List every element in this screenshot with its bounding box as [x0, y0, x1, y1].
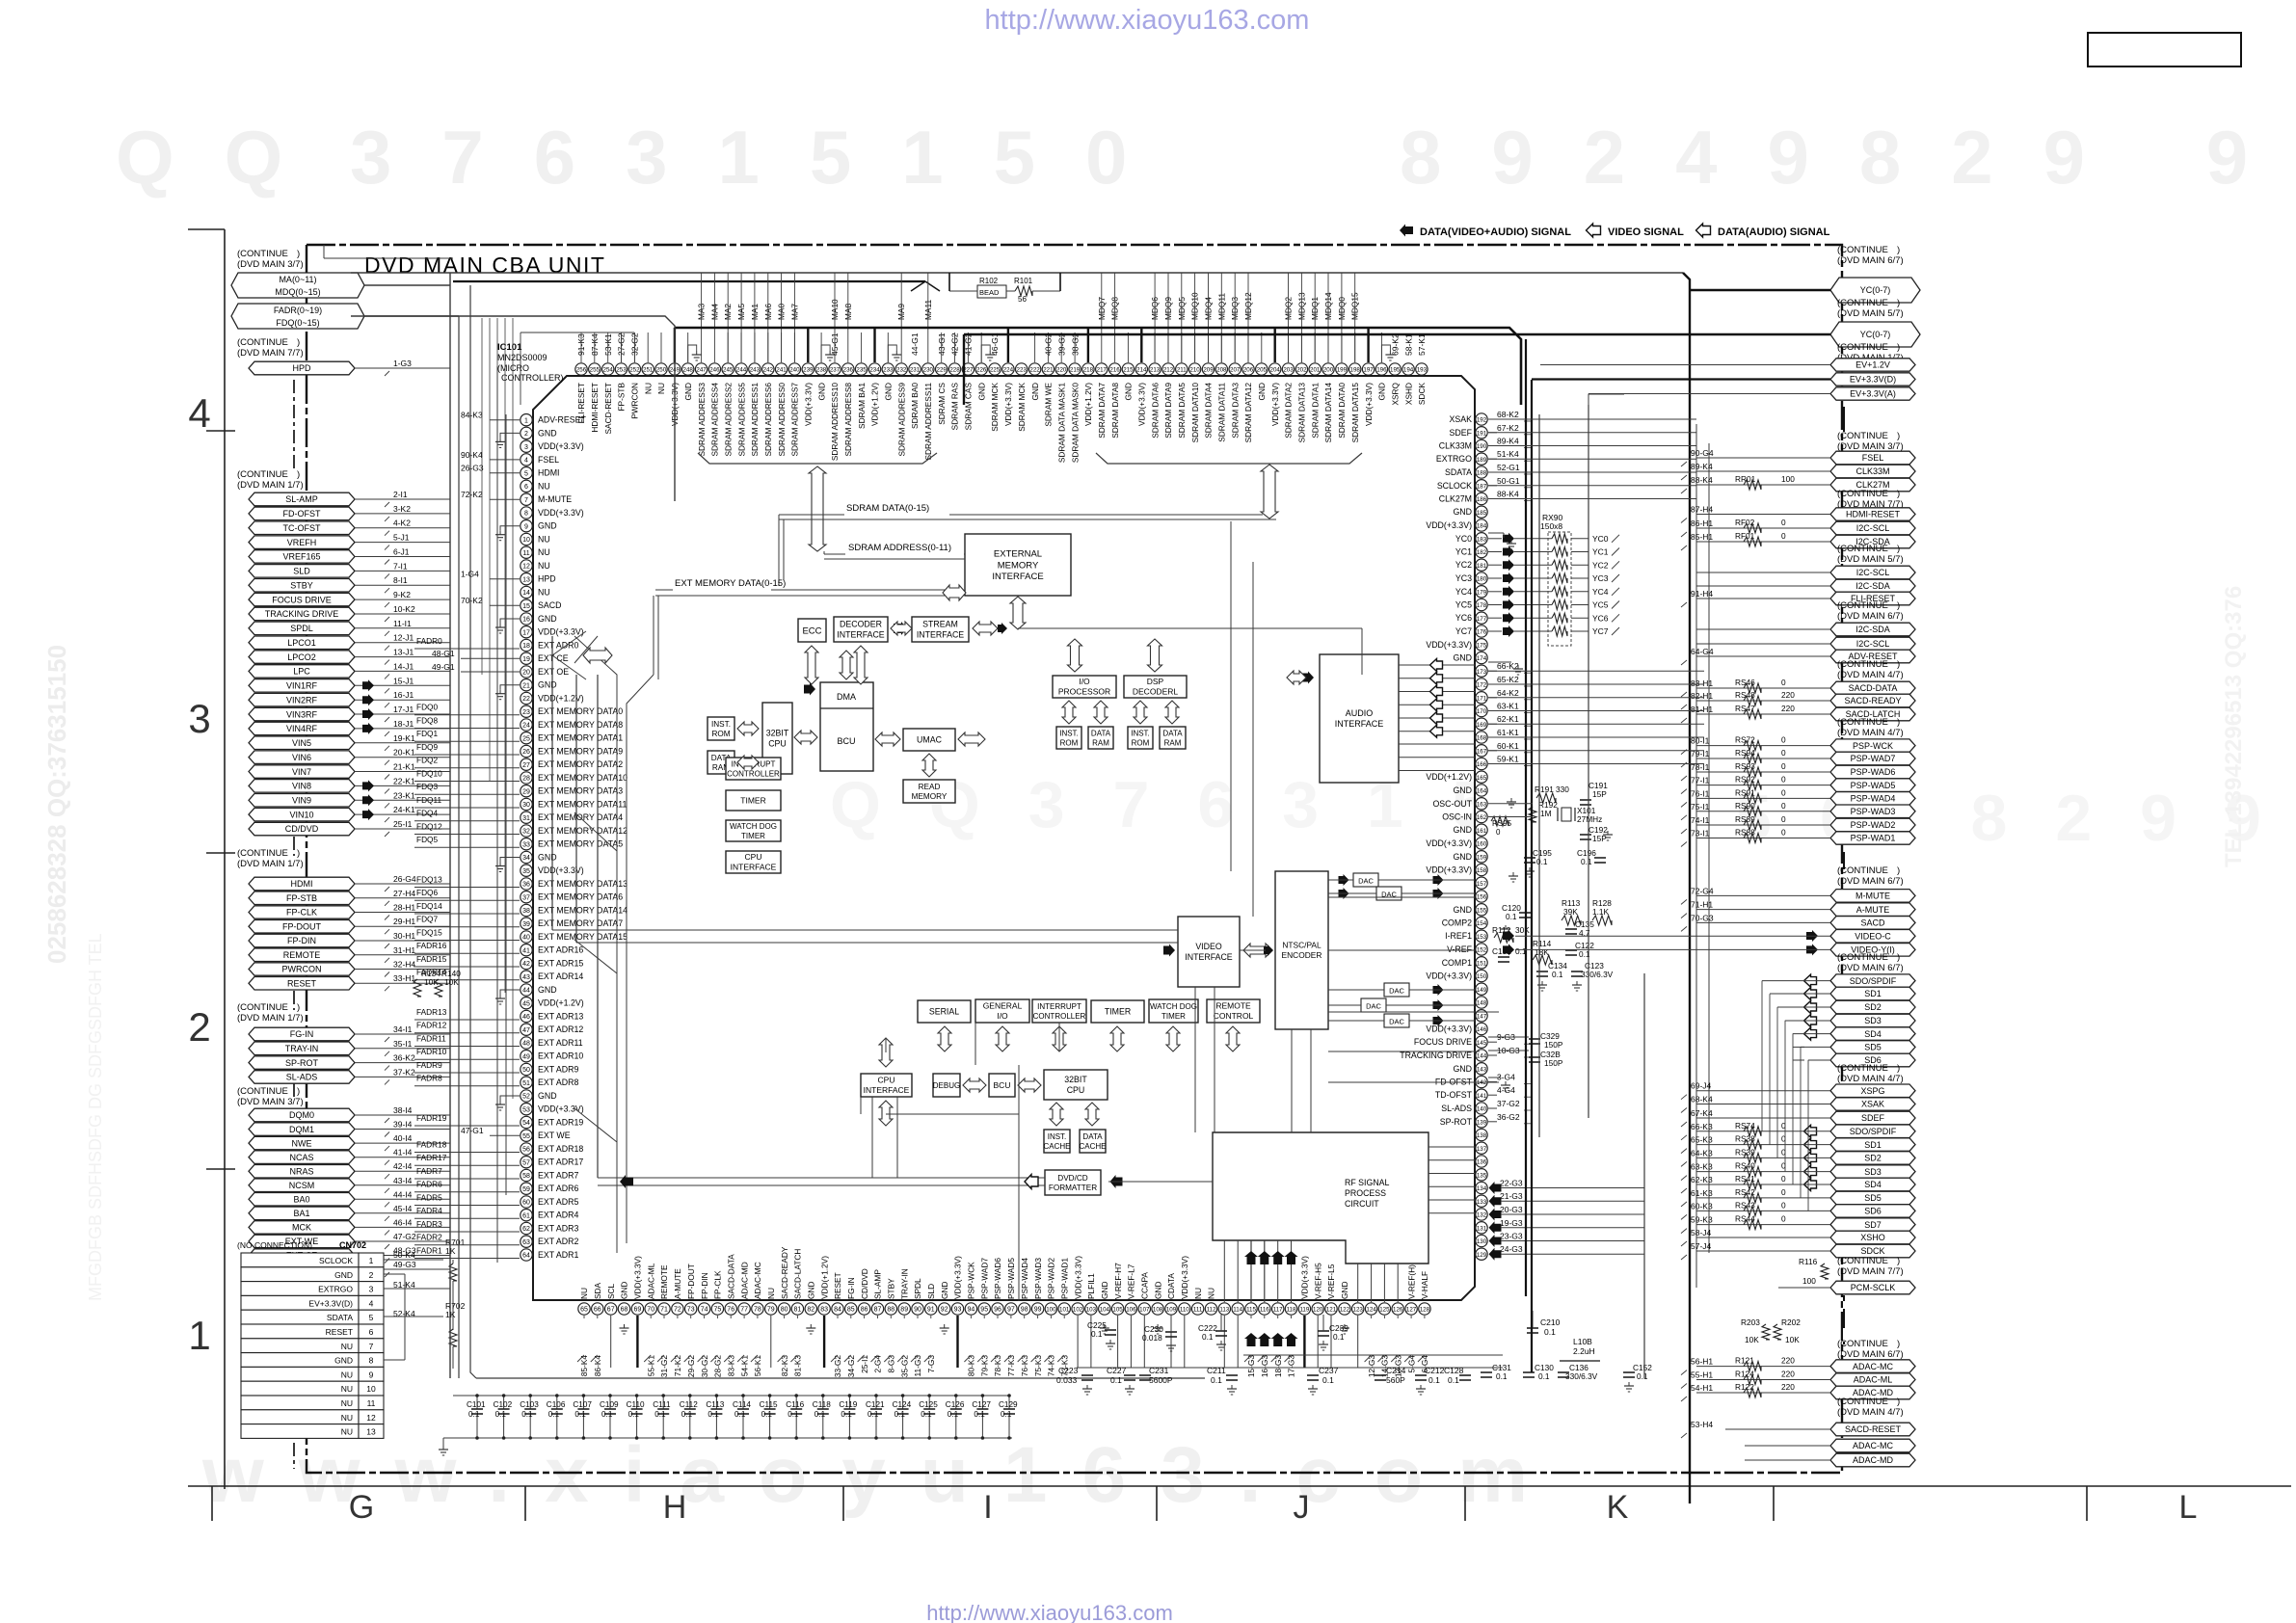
block DSP DECODERL [1124, 676, 1187, 698]
svg-text:INST.: INST. [711, 720, 731, 729]
svg-text:225: 225 [990, 367, 1001, 374]
svg-text:0.1: 0.1 [921, 1410, 932, 1419]
svg-text:128: 128 [1420, 1307, 1430, 1314]
svg-text:YC(0-7): YC(0-7) [1860, 330, 1891, 339]
arrow bcu-umac [875, 732, 900, 746]
svg-text:19: 19 [522, 656, 530, 663]
svg-text:158: 158 [1477, 867, 1487, 874]
svg-text:238: 238 [816, 367, 827, 374]
svg-text:207: 207 [1230, 367, 1241, 374]
arrow ntsc left [1243, 944, 1272, 957]
cap bank ground [442, 1438, 444, 1446]
svg-text:66: 66 [594, 1307, 601, 1314]
connector label SD2 [1830, 1000, 1915, 1014]
svg-text:EXT ADR2: EXT ADR2 [538, 1237, 578, 1246]
IC101 pin 97 PSP-WAD5 [1005, 1303, 1017, 1315]
svg-text:ADAC-MD: ADAC-MD [1853, 1455, 1893, 1465]
svg-text:64-G4: 64-G4 [1691, 647, 1714, 656]
sd arrow low 1 [1804, 1138, 1817, 1151]
svg-text:0.1: 0.1 [548, 1410, 560, 1419]
svg-text:DAC: DAC [1358, 877, 1374, 886]
IC101 pin 108 GND [1152, 1303, 1163, 1315]
IC101 pin 163 OSC-OUT [1476, 798, 1487, 810]
svg-text:100: 100 [1046, 1307, 1056, 1314]
block DATA RAM 3 [1160, 727, 1186, 749]
svg-text:SDRAM CS: SDRAM CS [937, 383, 947, 425]
svg-text:VDD(+3.3V): VDD(+3.3V) [1270, 383, 1280, 426]
connector label PSP-WAD2 [1830, 818, 1915, 832]
net label YC2 right [1571, 564, 1589, 566]
svg-text:RESET: RESET [287, 979, 317, 989]
svg-text:245: 245 [723, 367, 734, 374]
IC101 pin 206 SDRAM DATA12 [1242, 363, 1254, 375]
net label YC3 right [1571, 577, 1589, 579]
svg-text:60: 60 [522, 1200, 530, 1207]
block I/O PROCESSOR [1053, 676, 1116, 698]
connector label FLI-RESET [1830, 592, 1915, 605]
svg-text:0.1: 0.1 [1091, 1329, 1103, 1339]
left bus wire B [458, 316, 460, 1378]
left label VIN10 [249, 808, 355, 821]
connector label A-MUTE [1830, 903, 1915, 917]
svg-text:86: 86 [861, 1307, 868, 1314]
svg-text:188: 188 [1477, 470, 1487, 477]
IC101 pin 205 GND [1256, 363, 1268, 375]
svg-text:0.1: 0.1 [601, 1410, 613, 1419]
connector label VIDEO-C [1830, 930, 1915, 944]
svg-text:220: 220 [1781, 690, 1795, 700]
svg-text:EXT ADR16: EXT ADR16 [538, 945, 583, 955]
svg-text:SDRAM DATA0: SDRAM DATA0 [1337, 383, 1347, 439]
svg-text:35-I1: 35-I1 [393, 1039, 413, 1049]
IC101 pin 32 EXT MEMORY DATA12 [521, 825, 532, 837]
svg-text:C127: C127 [972, 1400, 991, 1409]
svg-text:(DVD MAIN 1/7): (DVD MAIN 1/7) [237, 480, 304, 491]
svg-text:INTERRUPT: INTERRUPT [1037, 1002, 1081, 1011]
block DATA CACHE [1080, 1130, 1106, 1153]
IC101 pin 85 FG-IN [845, 1303, 857, 1315]
video-c arrows [1503, 930, 1514, 942]
bottom collector bus B [1077, 1367, 1503, 1369]
svg-text:209: 209 [1203, 367, 1214, 374]
svg-text:89249829 9: 89249829 9 [1400, 115, 2296, 200]
svg-text:7-G3: 7-G3 [926, 1355, 936, 1373]
svg-text:V-REF(H): V-REF(H) [1406, 1264, 1416, 1299]
svg-text:VIN3RF: VIN3RF [286, 709, 318, 719]
net label YC4 right [1571, 591, 1589, 593]
svg-text:208: 208 [1216, 367, 1227, 374]
IC101 pin 75 FP-CLK [711, 1303, 723, 1315]
svg-text:22: 22 [522, 696, 530, 703]
wire videoif input [552, 929, 1178, 931]
IC101 pin 167 [1476, 745, 1487, 757]
svg-text:39: 39 [522, 921, 530, 928]
IC101 pin 129 [1476, 1248, 1487, 1260]
svg-text:DVD MAIN CBA UNIT: DVD MAIN CBA UNIT [364, 253, 605, 278]
IC101 pin 130 [1476, 1235, 1487, 1246]
IC101 pin 43 EXT ADR14 [521, 971, 532, 982]
svg-text:237: 237 [830, 367, 841, 374]
svg-text:FADR16: FADR16 [416, 941, 447, 950]
svg-text:SDRAM ADDRESS0: SDRAM ADDRESS0 [777, 383, 787, 457]
svg-text:37-G2: 37-G2 [1497, 1099, 1520, 1108]
svg-text:GND: GND [976, 383, 986, 400]
svg-text:252: 252 [629, 367, 640, 374]
svg-text:(CONTINUE: (CONTINUE [1837, 717, 1888, 728]
svg-text:C112: C112 [680, 1400, 698, 1409]
svg-text:SD6: SD6 [1864, 1207, 1882, 1216]
svg-text:QQ: QQ [116, 115, 333, 200]
svg-text:71: 71 [660, 1307, 668, 1314]
svg-text:1M: 1M [1540, 809, 1552, 818]
svg-text:159: 159 [1477, 854, 1487, 861]
svg-text:11-I1: 11-I1 [393, 619, 412, 628]
svg-text:C126: C126 [946, 1400, 965, 1409]
svg-text:(DVD MAIN 5/7): (DVD MAIN 5/7) [1837, 308, 1904, 319]
svg-text:SDRAM ADDRESS(0-11): SDRAM ADDRESS(0-11) [848, 543, 951, 553]
svg-text:YC6: YC6 [1592, 613, 1609, 623]
connector label FSEL [1830, 451, 1915, 465]
svg-text:193: 193 [1417, 367, 1428, 374]
IC101 pin 136 [1476, 1156, 1487, 1167]
IC101 pin 244 SDRAM ADDRESS5 [735, 363, 747, 375]
svg-text:INTERFACE: INTERFACE [917, 630, 964, 640]
IC101 pin 50 EXT ADR9 [521, 1063, 532, 1075]
svg-text:EXT MEMORY DATA7: EXT MEMORY DATA7 [538, 918, 623, 928]
svg-text:M-MUTE: M-MUTE [1855, 891, 1890, 901]
svg-text:SDO/SPDIF: SDO/SPDIF [1850, 976, 1897, 986]
svg-text:SDRAM DATA14: SDRAM DATA14 [1323, 383, 1333, 443]
wire ev33a [1589, 394, 1624, 405]
svg-text:181: 181 [1477, 563, 1487, 570]
svg-text:10K: 10K [1745, 1335, 1759, 1344]
svg-text:32-H4: 32-H4 [393, 960, 415, 970]
power rail x1589 [1531, 380, 1533, 1372]
svg-text:NTSC/PAL: NTSC/PAL [1282, 941, 1322, 950]
IC101 pin 76 SACD-DATA [725, 1303, 736, 1315]
svg-text:RESET: RESET [326, 1327, 353, 1337]
svg-text:0.1: 0.1 [1202, 1332, 1214, 1342]
svg-text:8-G3: 8-G3 [887, 1355, 896, 1373]
svg-text:197: 197 [1363, 367, 1374, 374]
wire ntsc down [1291, 1029, 1293, 1132]
svg-text:CONTROLLER: CONTROLLER [1033, 1012, 1086, 1021]
svg-text:DAC: DAC [1389, 987, 1404, 996]
connector label EV+3.3V(D) [1830, 373, 1915, 386]
left label VIN7 [249, 765, 355, 779]
svg-text:80: 80 [781, 1307, 788, 1314]
svg-text:143: 143 [1477, 1066, 1487, 1073]
svg-text:88: 88 [887, 1307, 894, 1314]
svg-text:NCSM: NCSM [289, 1181, 315, 1190]
svg-text:DAC: DAC [1366, 1002, 1381, 1011]
svg-text:97: 97 [1007, 1307, 1015, 1314]
connector label CLK33M [1830, 465, 1915, 478]
svg-text:196: 196 [1376, 367, 1387, 374]
svg-text:PSP-WCK: PSP-WCK [967, 1262, 976, 1299]
connector label PSP-WAD7 [1830, 752, 1915, 765]
top left pin riser wires [580, 333, 582, 362]
IC101 pin 222 GND [1028, 363, 1040, 375]
IC101 pin 134 [1476, 1182, 1487, 1193]
svg-text:DATA(AUDIO) SIGNAL: DATA(AUDIO) SIGNAL [1718, 226, 1830, 238]
svg-text:12: 12 [522, 564, 530, 571]
svg-text:88-K4: 88-K4 [1691, 475, 1713, 485]
svg-text:91: 91 [927, 1307, 935, 1314]
svg-text:62: 62 [522, 1226, 530, 1233]
svg-text:SACD-READY: SACD-READY [780, 1246, 789, 1299]
video-y arrows [1503, 944, 1514, 955]
bus FADR/FDQ horizontal [351, 316, 675, 501]
IC101 pin 27 EXT MEMORY DATA2 [521, 758, 532, 770]
fan-in chevrons left pins [574, 636, 617, 1253]
IC101 pin 256 FLI-RESET [575, 363, 587, 375]
connector label ADAC-MC [1830, 1439, 1915, 1452]
svg-text:FADR5: FADR5 [416, 1193, 442, 1203]
svg-text:I2C-SCL: I2C-SCL [1856, 568, 1890, 577]
svg-text:GND: GND [538, 853, 557, 863]
svg-text:179: 179 [1477, 589, 1487, 596]
svg-text:118: 118 [1287, 1307, 1296, 1314]
op-amp IC101 outline [533, 376, 1475, 1300]
svg-text:241: 241 [776, 367, 787, 374]
IC101 pin 120 V-REF-H5 [1312, 1303, 1323, 1315]
svg-text:139: 139 [1477, 1119, 1487, 1126]
svg-text:YC5: YC5 [1592, 600, 1609, 610]
IC101 pin 159 GND [1476, 851, 1487, 863]
outer dash-dot border [307, 245, 1842, 1473]
capacitor C125 0.1 [928, 1396, 930, 1409]
connector label EV+3.3V(A) [1830, 387, 1915, 400]
svg-text:219: 219 [1070, 367, 1081, 374]
svg-text:58-K1: 58-K1 [1403, 333, 1413, 356]
svg-text:SDRAM ADDRESS3: SDRAM ADDRESS3 [697, 383, 707, 457]
svg-text:177: 177 [1477, 616, 1487, 623]
capacitor C124 0.1 [902, 1396, 904, 1409]
left label BA1 [249, 1207, 355, 1220]
IC101 pin 33 EXT MEMORY DATA5 [521, 838, 532, 850]
svg-text:A-MUTE: A-MUTE [1856, 905, 1890, 915]
svg-text:SD2: SD2 [1864, 1154, 1882, 1163]
svg-text:49-G1: 49-G1 [432, 662, 455, 672]
IC101 pin 13 HPD [521, 573, 532, 585]
svg-text:0.1: 0.1 [761, 1410, 773, 1419]
left continuation dash c [293, 991, 295, 1010]
svg-text:43: 43 [522, 974, 530, 981]
svg-text:VDD(+1.2V): VDD(+1.2V) [1426, 772, 1472, 782]
IC101 pin 92 GND [939, 1303, 950, 1315]
svg-text:183: 183 [1477, 536, 1487, 543]
arrow dsp up [1148, 639, 1162, 672]
svg-text:3: 3 [188, 696, 210, 741]
left label PWRCON [249, 963, 355, 975]
svg-text:0.1: 0.1 [1322, 1375, 1334, 1385]
svg-text:): ) [297, 1002, 300, 1013]
svg-text:GND: GND [1153, 1282, 1162, 1299]
svg-text:VDD(+3.3V): VDD(+3.3V) [1426, 520, 1472, 530]
svg-text:SDRAM DATA12: SDRAM DATA12 [1243, 383, 1253, 443]
left label EXT-CE [249, 1249, 355, 1262]
svg-text:DECODERL: DECODERL [1133, 687, 1179, 697]
IC101 pin 31 EXT MEMORY DATA4 [521, 811, 532, 823]
block EXTERNAL MEMORY INTERFACE [965, 534, 1071, 596]
IC101 pin 93 VDD(+3.3V) [951, 1303, 963, 1315]
sd arrow 5 [1793, 1046, 1804, 1048]
svg-text:0: 0 [1781, 1200, 1786, 1210]
svg-text:OSC-IN: OSC-IN [1442, 812, 1472, 822]
svg-text:http://www.xiaoyu163.com: http://www.xiaoyu163.com [985, 5, 1310, 36]
svg-text:5: 5 [369, 1313, 374, 1322]
svg-text:38: 38 [522, 908, 530, 915]
left label FP-DOUT [249, 920, 355, 934]
svg-text:220: 220 [1781, 1382, 1795, 1392]
svg-text:SDRAM DATA15: SDRAM DATA15 [1350, 383, 1360, 443]
arrow instrom1 [737, 722, 759, 735]
svg-text:70: 70 [647, 1307, 654, 1314]
svg-text:C111: C111 [653, 1400, 671, 1409]
svg-text:VDD(+3.3V): VDD(+3.3V) [1137, 383, 1147, 426]
svg-text:J: J [1294, 1489, 1310, 1526]
IC101 pin 185 GND [1476, 506, 1487, 518]
svg-text:79: 79 [767, 1307, 775, 1314]
svg-text:EXT MEMORY DATA14: EXT MEMORY DATA14 [538, 906, 627, 916]
svg-text:DQM0: DQM0 [289, 1110, 314, 1120]
block DMA/BCU [820, 682, 873, 771]
arrow ext bus into EMI [943, 585, 966, 600]
svg-text:AUDIO: AUDIO [1346, 708, 1374, 718]
svg-text:DATA: DATA [1091, 729, 1111, 737]
svg-text:131: 131 [1477, 1225, 1487, 1232]
svg-text:190: 190 [1477, 443, 1487, 450]
svg-text:PSP-WAD2: PSP-WAD2 [1851, 820, 1896, 830]
svg-text:ENCODER: ENCODER [1282, 950, 1322, 960]
IC101 pin 250 NU [655, 363, 667, 375]
svg-text:90: 90 [914, 1307, 921, 1314]
sd arrow low 4 [1804, 1179, 1817, 1191]
svg-text:0: 0 [1781, 678, 1786, 687]
connector label XSAK [1830, 1098, 1915, 1110]
svg-text:FADR19: FADR19 [416, 1113, 447, 1123]
svg-text:21-G3: 21-G3 [1500, 1191, 1523, 1201]
svg-text:149: 149 [1477, 987, 1487, 994]
svg-text:41: 41 [522, 947, 530, 954]
connector label SD5 [1830, 1041, 1915, 1054]
svg-text:57-K1: 57-K1 [1417, 333, 1427, 356]
svg-text:(CONTINUE: (CONTINUE [1837, 298, 1888, 308]
svg-text:EXTRGO: EXTRGO [318, 1285, 353, 1294]
IC101 pin 125 [1378, 1303, 1390, 1315]
svg-text:REMOTE: REMOTE [283, 950, 321, 960]
svg-text:18-J1: 18-J1 [393, 719, 414, 729]
svg-text:54: 54 [522, 1120, 530, 1127]
svg-text:DATA: DATA [1082, 1132, 1103, 1141]
IC101 pin 57 EXT ADR17 [521, 1157, 532, 1168]
IC101 pin 114 [1232, 1303, 1243, 1315]
svg-text:SDEF: SDEF [1450, 428, 1473, 438]
svg-text:PSP-WAD3: PSP-WAD3 [1033, 1258, 1043, 1299]
IC101 pin 16 GND [521, 613, 532, 625]
connector label YC(0-7) [1830, 322, 1920, 347]
svg-text:MDQ(0~15): MDQ(0~15) [275, 287, 320, 297]
svg-text:XSRQ: XSRQ [1390, 382, 1400, 405]
svg-text:DMA: DMA [837, 692, 856, 702]
RF block right wires [1428, 1146, 1475, 1148]
svg-text:EXT ADR14: EXT ADR14 [538, 971, 583, 981]
svg-text:81: 81 [794, 1307, 802, 1314]
svg-text:FOCUS DRIVE: FOCUS DRIVE [1414, 1037, 1472, 1047]
svg-text:30-H1: 30-H1 [393, 931, 415, 941]
svg-text:V-REF: V-REF [1447, 945, 1473, 954]
IC101 pin 116 [1259, 1303, 1270, 1315]
left continuation dash b [293, 837, 295, 856]
left label LPCO2 [249, 651, 355, 664]
block BCU 2 [989, 1074, 1015, 1097]
svg-text:DAC: DAC [1389, 1018, 1404, 1026]
IC101 pin 218 VDD(+1.2V) [1082, 363, 1094, 375]
svg-text:FADR17: FADR17 [416, 1153, 447, 1162]
svg-text:2-G4: 2-G4 [873, 1355, 883, 1373]
svg-text:26-G4: 26-G4 [393, 874, 416, 884]
svg-text:VDD(+3.3V): VDD(+3.3V) [1180, 1256, 1189, 1299]
IC101 pin 66 SDA [592, 1303, 603, 1315]
IC101 pin 70 ADAC-ML [645, 1303, 656, 1315]
IC101 pin 173 [1476, 665, 1487, 677]
svg-text:176: 176 [1477, 629, 1487, 636]
svg-text:84: 84 [834, 1307, 841, 1314]
capacitor C110 0.1 [636, 1396, 638, 1409]
svg-text:SDRAM DATA8: SDRAM DATA8 [1110, 383, 1120, 439]
svg-text:FP-DOUT: FP-DOUT [282, 922, 321, 932]
IC101 pin 175 VDD(+3.3V) [1476, 639, 1487, 651]
IC101 pin 79 NU [765, 1303, 777, 1315]
bottom ruler ticks [211, 1486, 213, 1521]
svg-text:31-H1: 31-H1 [393, 945, 415, 955]
svg-text:0.1: 0.1 [1506, 912, 1517, 921]
svg-text:C109: C109 [600, 1400, 619, 1409]
svg-text:VDD(+3.3V): VDD(+3.3V) [538, 1104, 584, 1114]
svg-text:VIN2RF: VIN2RF [286, 695, 318, 705]
svg-text:4: 4 [188, 390, 210, 436]
svg-text:(CONTINUE: (CONTINUE [1837, 342, 1888, 353]
svg-text:215: 215 [1123, 367, 1134, 374]
IC101 pin 243 SDRAM ADDRESS1 [749, 363, 761, 375]
IC101 pin 128 V-HALF [1419, 1303, 1430, 1315]
svg-text:SDATA: SDATA [1445, 467, 1472, 477]
svg-text:CLK27M: CLK27M [1439, 494, 1472, 504]
svg-text:27: 27 [522, 762, 530, 769]
top horizontal wire y=268 [324, 257, 453, 259]
vin input arrows [362, 679, 374, 691]
svg-text:89: 89 [900, 1307, 908, 1314]
svg-text:(CONTINUE: (CONTINUE [237, 249, 288, 259]
svg-text:26: 26 [522, 749, 530, 756]
svg-text:101: 101 [1059, 1307, 1070, 1314]
connector label ADAC-MC [1830, 1360, 1915, 1373]
IC101 pin 37 EXT MEMORY DATA6 [521, 891, 532, 903]
wire texture col a [1230, 521, 1232, 871]
svg-text:220: 220 [1781, 1356, 1795, 1366]
IC101 pin 104 GND [1099, 1303, 1110, 1315]
IC101 pin 253 FP-STB [615, 363, 627, 375]
svg-text:150P: 150P [1544, 1058, 1563, 1068]
power rail x1583 [1525, 339, 1527, 1296]
connector label HDMI-RESET [1830, 508, 1915, 520]
IC101 pin 210 SDRAM DATA10 [1188, 363, 1200, 375]
svg-text:(DVD MAIN 6/7): (DVD MAIN 6/7) [1837, 876, 1904, 887]
svg-text:167: 167 [1477, 748, 1487, 755]
svg-text:R102: R102 [979, 277, 999, 285]
IC101 pin 42 EXT ADR15 [521, 957, 532, 969]
